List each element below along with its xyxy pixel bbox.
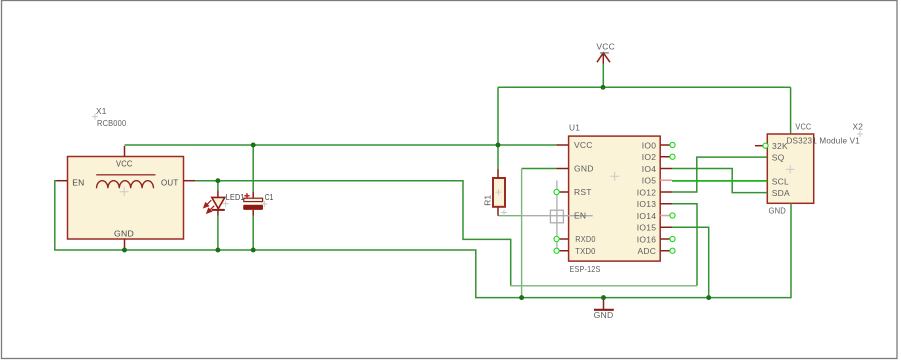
svg-text:RCB000: RCB000 — [97, 118, 126, 128]
svg-text:X1: X1 — [96, 106, 107, 116]
svg-text:IO14: IO14 — [637, 211, 656, 221]
svg-text:IO0: IO0 — [642, 140, 656, 150]
svg-text:GND: GND — [114, 229, 134, 239]
svg-text:U1: U1 — [569, 123, 580, 133]
svg-text:32K: 32K — [772, 141, 788, 151]
svg-text:GND: GND — [594, 310, 614, 320]
svg-text:IO15: IO15 — [637, 223, 656, 233]
svg-text:IO4: IO4 — [642, 164, 656, 174]
svg-text:LED1: LED1 — [226, 192, 245, 202]
svg-text:SQ: SQ — [772, 153, 785, 163]
svg-text:VCC: VCC — [596, 41, 615, 51]
svg-text:IO2: IO2 — [642, 152, 656, 162]
svg-text:SDA: SDA — [772, 188, 790, 198]
svg-text:VCC: VCC — [795, 121, 811, 131]
svg-text:ADC: ADC — [637, 246, 656, 256]
svg-text:VCC: VCC — [574, 140, 593, 150]
svg-text:RXD0: RXD0 — [575, 234, 595, 244]
svg-text:IO5: IO5 — [642, 176, 656, 186]
svg-text:OUT: OUT — [161, 177, 179, 187]
svg-text:X2: X2 — [853, 121, 864, 131]
svg-text:IO12: IO12 — [637, 187, 656, 197]
svg-text:C1: C1 — [265, 192, 274, 202]
svg-text:GND: GND — [769, 205, 787, 215]
svg-text:EN: EN — [72, 177, 84, 187]
svg-text:R1: R1 — [483, 195, 493, 206]
svg-text:EN: EN — [574, 211, 586, 221]
svg-text:SCL: SCL — [772, 177, 789, 187]
svg-text:DS3231 Module V1: DS3231 Module V1 — [787, 136, 861, 146]
svg-text:IO13: IO13 — [637, 199, 656, 209]
svg-text:GND: GND — [574, 164, 594, 174]
svg-text:RST: RST — [574, 187, 592, 197]
svg-text:IO16: IO16 — [637, 234, 656, 244]
svg-text:TXD0: TXD0 — [575, 246, 595, 256]
svg-text:VCC: VCC — [116, 159, 133, 169]
svg-text:ESP-12S: ESP-12S — [570, 264, 601, 274]
